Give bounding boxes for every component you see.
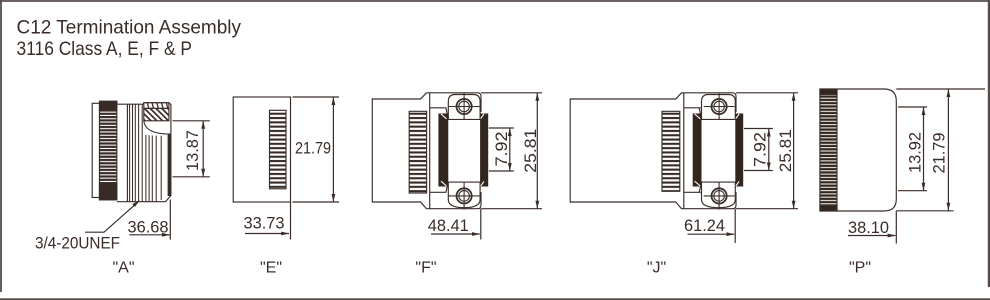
svg-text:33.73: 33.73	[244, 215, 285, 233]
svg-text:13.87: 13.87	[184, 130, 202, 171]
svg-text:3116 Class A, E, F & P: 3116 Class A, E, F & P	[17, 38, 193, 60]
svg-text:25.81: 25.81	[522, 129, 540, 173]
svg-text:C12 Termination Assembly: C12 Termination Assembly	[17, 17, 242, 39]
svg-text:"J": "J"	[647, 259, 666, 276]
svg-text:61.24: 61.24	[684, 217, 725, 235]
svg-text:21.79: 21.79	[295, 140, 331, 158]
svg-text:"P": "P"	[849, 259, 871, 276]
svg-text:"F": "F"	[415, 259, 436, 276]
svg-text:3/4-20UNEF: 3/4-20UNEF	[35, 234, 120, 252]
svg-text:25.81: 25.81	[777, 129, 795, 172]
svg-text:48.41: 48.41	[428, 217, 469, 235]
svg-text:7.92: 7.92	[493, 132, 511, 167]
svg-text:"E": "E"	[260, 259, 282, 276]
svg-text:13.92: 13.92	[907, 132, 925, 173]
svg-text:"A": "A"	[112, 259, 134, 276]
svg-text:21.79: 21.79	[930, 133, 948, 174]
svg-text:7.92: 7.92	[752, 132, 770, 167]
svg-text:38.10: 38.10	[848, 219, 889, 237]
svg-text:36.68: 36.68	[128, 218, 169, 236]
